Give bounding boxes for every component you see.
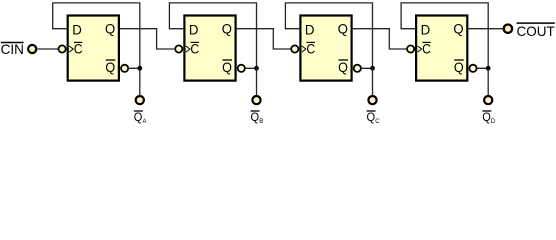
wire Q4 to COUT terminal xyxy=(468,28,502,30)
D flip-flop U3 xyxy=(291,16,361,81)
svg-text:Q: Q xyxy=(134,110,143,124)
label Q&#818;C xyxy=(367,110,381,125)
svg-text:D: D xyxy=(305,22,315,38)
label CIN xyxy=(1,41,24,57)
svg-text:D: D xyxy=(491,119,496,124)
svg-text:Q: Q xyxy=(222,20,232,36)
wire Q&#818;4 down to output terminal xyxy=(487,68,489,95)
output terminal QD xyxy=(484,96,492,104)
D flip-flop U2 xyxy=(175,16,245,81)
D flip-flop U1 xyxy=(59,16,129,81)
svg-text:D: D xyxy=(189,22,199,38)
wire Q3 to U4 clock input xyxy=(353,29,406,49)
wire Q&#818;1 down to output terminal xyxy=(139,68,141,95)
svg-text:D: D xyxy=(421,22,431,38)
svg-text:Q: Q xyxy=(453,20,463,36)
junction on Q&#818;1 node xyxy=(137,66,142,71)
wire Q&#818;2 down to output terminal xyxy=(256,68,258,95)
wire Q1 to U2 clock input xyxy=(120,29,174,49)
svg-text:C: C xyxy=(74,41,83,57)
label Q&#818;D xyxy=(482,110,496,125)
svg-text:Q: Q xyxy=(105,20,115,36)
junction on Q&#818;2 node xyxy=(254,66,259,71)
wire Q&#818;4 feedback loop to D input xyxy=(401,3,488,68)
output terminal COUT xyxy=(504,25,512,33)
wire Q&#818;3 down to output terminal xyxy=(372,68,374,95)
svg-text:B: B xyxy=(259,119,263,124)
svg-text:Q: Q xyxy=(105,59,115,75)
svg-text:Q: Q xyxy=(338,59,348,75)
svg-text:D: D xyxy=(72,22,82,38)
svg-text:Q: Q xyxy=(222,59,232,75)
svg-text:Q: Q xyxy=(482,110,491,124)
svg-text:C: C xyxy=(422,41,431,57)
svg-text:C: C xyxy=(306,41,315,57)
junction on Q&#818;4 node xyxy=(486,66,491,71)
svg-text:Q: Q xyxy=(367,110,376,124)
svg-text:C: C xyxy=(190,41,199,57)
wire Q&#818;2 feedback loop to D input xyxy=(169,3,256,68)
svg-text:Q: Q xyxy=(251,110,260,124)
svg-text:Q: Q xyxy=(454,59,464,75)
wire Q&#818;1 feedback loop to D input xyxy=(53,3,140,68)
wire CIN to U1 clock input xyxy=(38,48,59,50)
junction on Q&#818;3 node xyxy=(370,66,375,71)
D flip-flop U4 xyxy=(407,16,477,81)
output terminal QB xyxy=(252,96,260,104)
svg-text:Q: Q xyxy=(338,20,348,36)
wire Q2 to U3 clock input xyxy=(237,29,291,49)
output terminal QC xyxy=(368,96,376,104)
svg-text:A: A xyxy=(143,119,147,124)
label Q&#818;B xyxy=(251,110,264,125)
wire Q&#818;3 feedback loop to D input xyxy=(285,3,372,68)
input terminal CIN xyxy=(28,45,36,53)
output terminal QA xyxy=(136,96,144,104)
svg-text:CIN: CIN xyxy=(1,41,24,57)
label Q&#818;A xyxy=(134,110,147,125)
svg-text:C: C xyxy=(375,119,380,124)
label COUT xyxy=(517,23,556,39)
svg-text:COUT: COUT xyxy=(517,23,556,39)
